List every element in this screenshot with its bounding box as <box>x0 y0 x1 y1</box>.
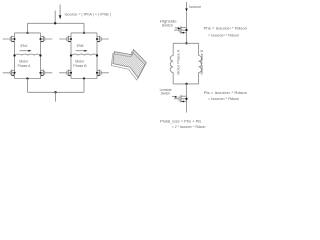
node bridge B top <box>83 32 85 34</box>
node inductor B right <box>96 54 98 56</box>
transistor lowside switch <box>174 95 188 102</box>
node inductor A right <box>39 54 41 56</box>
current arrow IPhA <box>20 50 29 52</box>
svg-text:Phase A: Phase A <box>17 64 31 68</box>
svg-text:Switch: Switch <box>162 23 173 27</box>
wire tap to bridge B <box>83 23 85 33</box>
current arrow IPhB <box>76 50 85 52</box>
svg-text:= Isource² * Rdson: = Isource² * Rdson <box>208 33 239 37</box>
wire return stub down <box>55 92 57 101</box>
svg-text:= 2 * Isource² * Rdson: = 2 * Isource² * Rdson <box>172 125 206 129</box>
wire bridge B right rail <box>96 33 98 79</box>
svg-text:Motor: Motor <box>19 59 29 63</box>
wire loop right upper <box>198 43 200 55</box>
node bridge A top <box>26 32 28 34</box>
block arrow (transition) <box>111 50 146 81</box>
current arrow Isource (left) <box>59 4 61 15</box>
wire supply drop <box>54 11 56 24</box>
wire right supply <box>186 2 188 9</box>
svg-text:Pls = Isource² * Rdson: Pls = Isource² * Rdson <box>204 91 248 95</box>
transistor bridge B low-side left <box>59 70 72 77</box>
transistor bridge A high-side right <box>39 36 52 43</box>
svg-text:Switch: Switch <box>161 92 170 96</box>
transistor bridge A low-side left <box>3 70 16 77</box>
wire loop right lower <box>198 73 200 84</box>
wire bridge A bottom tap <box>27 79 29 93</box>
transistor bridge B high-side right <box>96 36 109 43</box>
wire lowside drop <box>186 84 188 113</box>
wire loop top rail <box>173 42 198 44</box>
svg-text:Ptotal_loss = Phs + Pls: Ptotal_loss = Phs + Pls <box>160 119 202 123</box>
wire bridge A left rail <box>14 33 16 79</box>
node common return junction <box>54 91 56 93</box>
transistor bridge B low-side right <box>96 70 109 77</box>
svg-text:= Isource² * Rdson: = Isource² * Rdson <box>208 97 239 101</box>
inductor bridge A winding <box>15 54 40 55</box>
svg-text:Isource = | IPhA | + | IPhB |: Isource = | IPhA | + | IPhB | <box>65 13 111 17</box>
svg-text:Motor Phase A: Motor Phase A <box>177 49 181 75</box>
pointer arrow to lowside gate <box>172 95 175 98</box>
wire tap to bridge A <box>27 23 29 33</box>
node inductor B left <box>70 54 72 56</box>
svg-text:Phs = Isource² * Rdson: Phs = Isource² * Rdson <box>204 27 248 31</box>
wire bridge A bottom rail <box>15 78 41 80</box>
transistor highside switch <box>174 26 188 33</box>
inductor bridge B winding <box>72 54 97 55</box>
svg-text:Phase B: Phase B <box>73 64 87 68</box>
node loop top <box>185 42 187 44</box>
wire loop left upper <box>172 43 174 55</box>
wire bridge B top rail <box>71 32 97 34</box>
node inductor A left <box>13 54 15 56</box>
node supply junction <box>54 22 56 24</box>
wire bridge B bottom rail <box>71 78 97 80</box>
wire bridge A top rail <box>15 32 41 34</box>
wire bridge B left rail <box>70 33 72 79</box>
transistor bridge A high-side left <box>3 36 16 43</box>
svg-text:Motor: Motor <box>75 59 85 63</box>
wire bridge B bottom tap <box>83 79 85 93</box>
svg-text:Motor Phase B: Motor Phase B <box>200 49 204 75</box>
node bridge B bottom <box>83 77 85 79</box>
current arrow Isource (right) <box>185 8 187 11</box>
wire common return <box>28 91 85 93</box>
transistor bridge A low-side right <box>39 70 52 77</box>
pointer arrow to highside gate <box>175 27 178 30</box>
wire loop left lower <box>172 73 174 84</box>
inductor motor phase B (right fig) <box>199 56 202 73</box>
node loop bottom <box>185 83 187 85</box>
wire right supply lower <box>186 12 188 44</box>
transistor bridge B high-side left <box>59 36 72 43</box>
svg-text:IPhB: IPhB <box>77 44 84 48</box>
wire loop bottom rail <box>173 83 198 85</box>
node bridge A bottom <box>26 77 28 79</box>
svg-text:IPhA: IPhA <box>21 44 29 48</box>
svg-text:Isource: Isource <box>189 5 201 9</box>
wire main supply rail <box>28 22 85 24</box>
wire bridge A right rail <box>40 33 42 79</box>
inductor motor phase A (right fig) <box>170 56 173 73</box>
